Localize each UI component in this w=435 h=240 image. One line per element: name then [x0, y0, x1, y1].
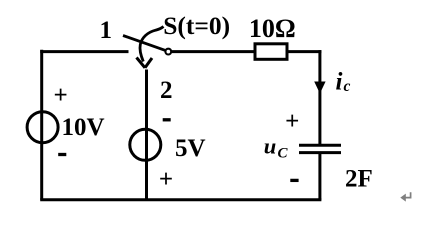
- svg-text:1: 1: [100, 17, 113, 44]
- svg-text:10Ω: 10Ω: [249, 14, 296, 43]
- svg-text:+: +: [159, 166, 173, 193]
- svg-text:+: +: [53, 82, 67, 109]
- svg-text:2F: 2F: [345, 166, 373, 193]
- svg-text:5V: 5V: [175, 135, 206, 162]
- svg-text:u: u: [264, 134, 277, 159]
- svg-text:i: i: [336, 69, 343, 96]
- svg-text:c: c: [344, 78, 351, 95]
- svg-text:C: C: [278, 146, 289, 162]
- svg-text:S(t=0): S(t=0): [163, 11, 230, 40]
- svg-text:+: +: [285, 108, 299, 135]
- svg-text:10V: 10V: [62, 114, 105, 141]
- svg-text:2: 2: [160, 77, 173, 104]
